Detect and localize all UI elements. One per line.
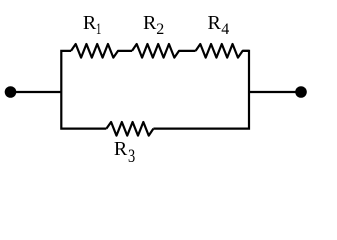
svg-text:3: 3 (128, 146, 135, 167)
label R1 (83, 12, 102, 38)
svg-text:R: R (143, 12, 157, 34)
left junction rail (node A) (61, 51, 106, 129)
label R4 (208, 12, 230, 38)
right junction rail (node B) (153, 51, 249, 129)
svg-text:1: 1 (96, 21, 102, 38)
svg-text:R: R (83, 12, 97, 34)
svg-text:2: 2 (156, 21, 164, 38)
resistor R2 (132, 44, 196, 58)
resistor R1 (71, 44, 132, 58)
label R2 (143, 12, 164, 38)
svg-text:4: 4 (221, 21, 229, 38)
left terminal wire (11, 91, 62, 93)
label R3 (114, 138, 135, 167)
resistor R4 (196, 44, 249, 58)
right terminal wire (249, 91, 301, 93)
left terminal dot (5, 86, 17, 98)
right terminal dot (295, 86, 307, 98)
svg-text:R: R (208, 12, 222, 34)
svg-text:R: R (114, 138, 128, 160)
resistor R3 (106, 122, 153, 136)
